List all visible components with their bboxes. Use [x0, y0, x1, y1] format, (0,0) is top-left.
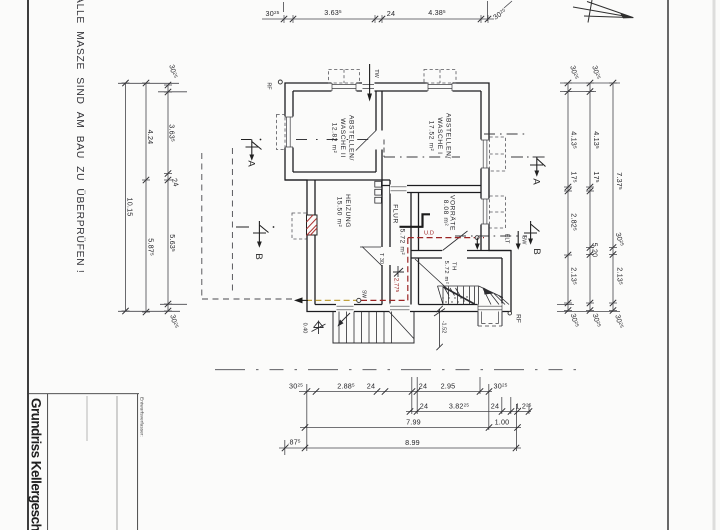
svg-text:ABSTELLEN/: ABSTELLEN/ [445, 113, 452, 159]
sheet border right [667, 0, 669, 530]
left dimension chain lines [118, 83, 187, 312]
svg-text:2.135: 2.135 [616, 267, 625, 285]
TH stair treads [438, 286, 510, 305]
svg-text:Grundriss Kellergeschoss: Grundriss Kellergeschoss [29, 398, 44, 530]
pipe elbow symbol [400, 214, 431, 227]
room label heizung [336, 194, 352, 228]
svg-text:2.135: 2.135 [570, 267, 579, 285]
left chain ticks [122, 80, 171, 315]
door heizung-south threshold [337, 306, 354, 310]
partition rooms 1-2 west face [375, 91, 377, 172]
doorway room2-corridor threshold [391, 187, 407, 191]
east wall inner face [480, 91, 482, 251]
svg-text:SW: SW [361, 290, 367, 298]
sewer line red segment [361, 299, 408, 301]
elt line red horizontal [408, 237, 484, 239]
svg-text:3025: 3025 [167, 63, 179, 79]
svg-text:3025: 3025 [569, 312, 581, 328]
svg-text:3.635: 3.635 [168, 124, 177, 142]
svg-text:4.135: 4.135 [592, 131, 601, 149]
arrow SW [516, 231, 521, 250]
svg-text:FLUR: FLUR [392, 204, 399, 224]
svg-text:5.635: 5.635 [168, 234, 177, 252]
wall heizung bottom inner [315, 304, 382, 306]
svg-text:24: 24 [491, 402, 499, 411]
svg-text:4.135: 4.135 [570, 131, 579, 149]
north arrow [573, 0, 634, 23]
svg-text:175: 175 [592, 171, 601, 182]
svg-text:B: B [253, 253, 264, 259]
svg-text:3025: 3025 [613, 313, 625, 329]
window openings white-outs [284, 82, 503, 313]
right chain ticks [565, 80, 616, 314]
outside stair [333, 312, 414, 344]
svg-text:.875: .875 [287, 438, 301, 447]
svg-text:8.99: 8.99 [405, 438, 420, 447]
wall left inner face [292, 91, 294, 172]
svg-text:2.775: 2.775 [393, 278, 401, 293]
room label TH [443, 261, 457, 285]
sewer line yellow segment [306, 299, 357, 301]
bottom window well [478, 312, 502, 327]
svg-text:2.95: 2.95 [441, 382, 456, 391]
scan edge shadow right [713, 0, 716, 530]
door swing vorrate [443, 231, 468, 251]
svg-text:1.00: 1.00 [495, 418, 510, 427]
window east-2 glazing [481, 199, 489, 224]
corridor south exit threshold [390, 306, 410, 310]
svg-text:A: A [531, 178, 542, 185]
room label abstellen-wasche I [428, 113, 452, 159]
wall room1 bottom outer [285, 179, 390, 181]
sewer riser red vertical [407, 238, 409, 300]
svg-text:RF: RF [515, 314, 522, 323]
room label vorrate [442, 195, 457, 231]
svg-text:24: 24 [170, 177, 181, 187]
svg-text:ALLE MASZE SIND AM BAU ZU: ALLE MASZE SIND AM BAU ZU ÜBERPRÜFEN ! [74, 0, 86, 273]
wall mid-south face south [411, 257, 502, 259]
svg-text:12.82 m²: 12.82 m² [331, 123, 338, 154]
svg-text:0.40: 0.40 [302, 323, 308, 334]
svg-text:3025: 3025 [494, 382, 508, 391]
svg-text:3025: 3025 [568, 64, 580, 80]
sw circle [357, 298, 361, 302]
wall room1 bottom inner [293, 171, 376, 173]
svg-text:24: 24 [387, 9, 395, 18]
section mark A right [530, 157, 546, 177]
window east-1 glazing [481, 140, 489, 168]
svg-text:SW: SW [521, 236, 527, 246]
level mark 0.40 [312, 321, 326, 335]
svg-text:TH: TH [451, 262, 457, 271]
svg-text:5.20: 5.20 [591, 243, 600, 258]
heizung west wall inner face [314, 180, 316, 305]
svg-text:3025: 3025 [168, 313, 180, 329]
svg-text:8.08 m²: 8.08 m² [442, 200, 449, 227]
sheet border left [27, 0, 29, 530]
svg-text:Entwurfsverfasser:: Entwurfsverfasser: [139, 397, 145, 437]
level mark -1.52 [434, 306, 445, 350]
svg-text:24: 24 [420, 402, 428, 411]
room label abstellen-wasche II [331, 115, 355, 161]
svg-text:HEIZUNG: HEIZUNG [344, 194, 351, 228]
chimney dashed box [292, 213, 307, 239]
svg-text:3.8225: 3.8225 [449, 402, 470, 411]
svg-text:15.50 m²: 15.50 m² [336, 197, 343, 228]
level mark flur [393, 266, 404, 277]
elt circle [475, 236, 479, 240]
svg-text:10.15: 10.15 [126, 198, 135, 217]
svg-text:ABSTELLEN/: ABSTELLEN/ [348, 115, 355, 161]
window bottom glazing [478, 305, 502, 312]
wall room2 south face north [382, 185, 481, 187]
svg-text:5.72 m²: 5.72 m² [399, 229, 406, 256]
bottom block labels [287, 382, 531, 448]
wall room2 south face south [390, 192, 481, 194]
corridor east wall east face [418, 193, 420, 305]
window well dashed boxes [277, 70, 506, 229]
duct boxes [375, 181, 382, 203]
svg-text:24: 24 [419, 382, 427, 391]
inner wall face top [293, 90, 481, 92]
wall mid-south face north [411, 250, 511, 252]
window top-1 glazing [332, 83, 356, 91]
svg-text:24: 24 [367, 382, 375, 391]
svg-text:U.D: U.D [424, 231, 434, 237]
title block top line [28, 393, 139, 395]
arrow sewer exit left [294, 297, 308, 303]
svg-text:3025: 3025 [289, 382, 303, 391]
svg-text:5.72 m²: 5.72 m² [443, 261, 449, 285]
svg-text:4.385: 4.385 [428, 8, 446, 17]
svg-text:17.52 m²: 17.52 m² [428, 121, 435, 152]
svg-text:T 30: T 30 [378, 253, 384, 264]
door swing heizung [360, 247, 382, 266]
section line A-A [296, 134, 548, 157]
section mark A left [241, 139, 262, 161]
svg-text:4.24: 4.24 [146, 130, 155, 145]
TH stair dotted texture [442, 296, 467, 302]
top dimension chain line [262, 1, 512, 21]
chimney hatched [307, 215, 318, 236]
bottom dimension block lines [279, 377, 531, 455]
svg-text:3025: 3025 [591, 312, 603, 328]
svg-text:WASCHE II: WASCHE II [339, 118, 346, 158]
corridor east wall west face [410, 193, 412, 305]
svg-text:3025: 3025 [491, 6, 508, 21]
door swing TH [415, 259, 447, 289]
svg-text:5.875: 5.875 [147, 238, 156, 256]
arrow ELT [475, 238, 480, 250]
svg-text:3.635: 3.635 [324, 8, 342, 17]
title block column lines [47, 394, 49, 530]
svg-text:RF: RF [266, 82, 272, 90]
corridor west wall outer face [389, 180, 391, 305]
terrace dashed outline left [202, 148, 296, 299]
bottom block ticks [282, 388, 532, 451]
svg-text:ELT: ELT [504, 234, 510, 244]
top chain ticks [281, 16, 491, 22]
svg-text:WASCHE I: WASCHE I [436, 117, 443, 154]
svg-text:3025: 3025 [266, 9, 280, 18]
arrow TW [367, 64, 372, 102]
left chain labels [126, 63, 181, 329]
svg-text:7.375: 7.375 [615, 172, 624, 190]
partition rooms 1-2 east face / corridor west [381, 91, 383, 305]
svg-text:175: 175 [570, 171, 579, 182]
svg-text:7.99: 7.99 [406, 418, 421, 427]
TH east wall inner face [501, 258, 503, 305]
window left glazing [285, 117, 293, 147]
svg-text:B: B [531, 248, 542, 254]
outer wall footprint [285, 83, 511, 312]
window top-2 glazing [428, 83, 452, 91]
long dash-dot line below plan [215, 369, 583, 371]
door swing room1 [356, 131, 376, 151]
right dimension chain lines [557, 83, 620, 312]
svg-text:A: A [246, 160, 257, 167]
svg-text:3025: 3025 [590, 64, 602, 80]
right chain labels [568, 64, 626, 329]
wall TH bottom inner [419, 304, 503, 306]
svg-text:2.885: 2.885 [337, 382, 355, 391]
svg-text:TW: TW [373, 69, 379, 78]
svg-text:-1.52: -1.52 [441, 321, 447, 334]
room label flur [392, 204, 406, 255]
section line B-B right [455, 235, 527, 237]
top chain labels [266, 6, 509, 21]
label RF bottom + circle [508, 311, 512, 315]
svg-text:2.825: 2.825 [570, 213, 579, 231]
small circle top-left corner [278, 80, 282, 84]
section mark B right [524, 221, 540, 245]
section mark B left [236, 221, 274, 248]
